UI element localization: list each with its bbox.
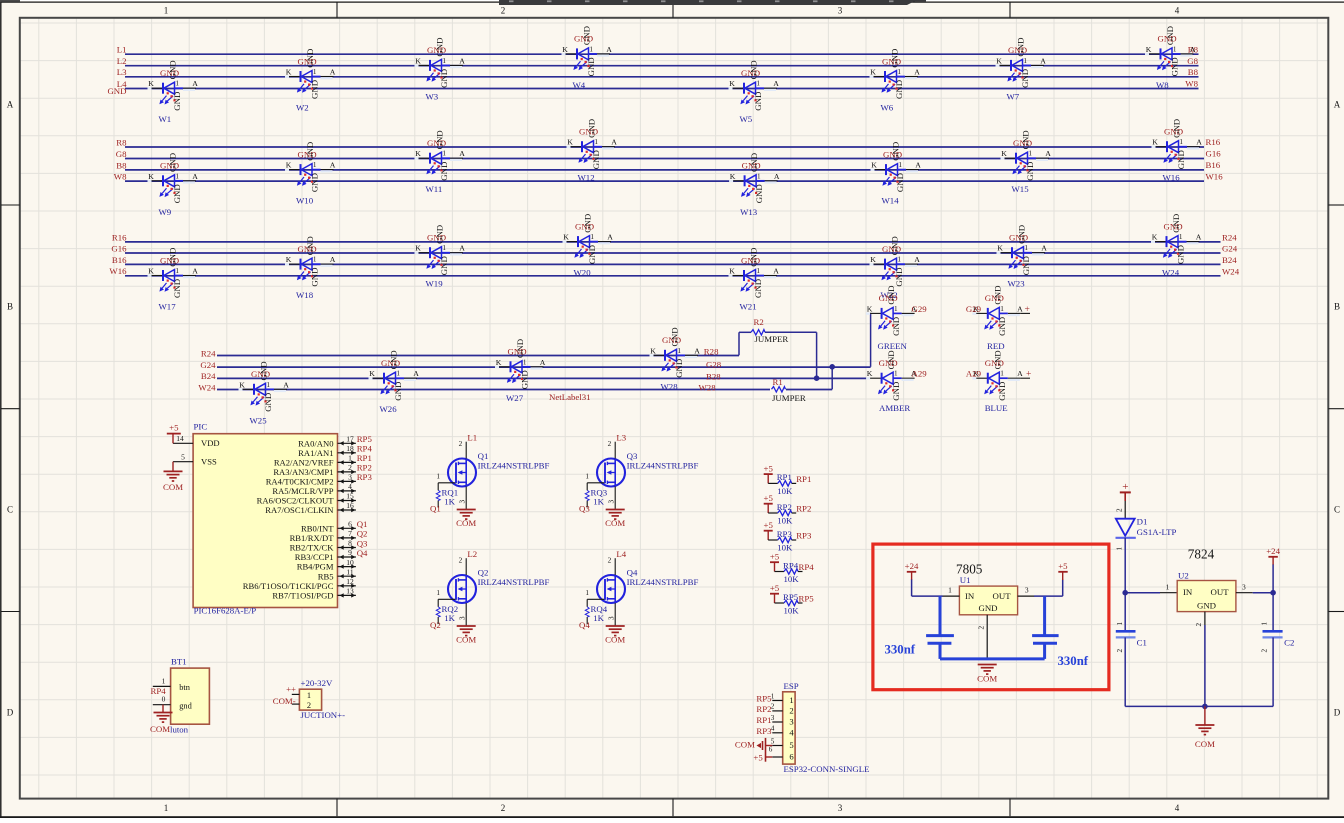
svg-text:14: 14 <box>176 434 184 443</box>
svg-text:G29: G29 <box>912 304 928 314</box>
svg-text:IRLZ44NSTRLPBF: IRLZ44NSTRLPBF <box>478 461 550 471</box>
svg-text:3: 3 <box>789 717 793 727</box>
transistor Q4 IRLZ44NSTRLPBF <box>585 549 698 626</box>
svg-text:W16: W16 <box>109 266 127 276</box>
wire G24 row4 <box>217 366 871 368</box>
power COM at ESP pin5 <box>735 738 772 762</box>
pin RA7/OSC1/CLKIN 16 <box>265 501 356 515</box>
svg-text:12: 12 <box>346 577 354 586</box>
svg-text:Q4: Q4 <box>357 548 368 558</box>
svg-text:COM: COM <box>163 482 183 492</box>
svg-text:A: A <box>1334 100 1341 110</box>
pin RB3/CCP1 9 <box>295 548 356 562</box>
svg-text:GREEN: GREEN <box>878 341 908 351</box>
svg-text:G24: G24 <box>1222 244 1238 254</box>
LED W9 <box>148 153 199 217</box>
svg-text:RB3/CCP1: RB3/CCP1 <box>295 552 334 562</box>
wire G16 row3 <box>125 252 1221 254</box>
svg-text:Q3: Q3 <box>579 504 590 514</box>
svg-text:RP2: RP2 <box>796 504 811 514</box>
wire W28 to G28 vertical <box>831 367 833 390</box>
wire R8 row2 <box>125 146 1204 148</box>
wire R2 horizontal <box>739 331 751 333</box>
svg-text:RP3: RP3 <box>796 531 812 541</box>
svg-text:JUMPER: JUMPER <box>755 334 789 344</box>
svg-text:L1: L1 <box>467 433 477 443</box>
svg-text:5: 5 <box>789 740 793 750</box>
svg-text:1: 1 <box>164 5 169 15</box>
svg-text:Q2: Q2 <box>478 568 489 578</box>
svg-text:luton: luton <box>170 725 189 735</box>
svg-text:R16: R16 <box>112 232 127 242</box>
svg-text:330nf: 330nf <box>1058 654 1089 668</box>
resistor RP5 10K <box>770 583 814 616</box>
wire bottom rail 7824 <box>1125 705 1273 707</box>
wire L3 row1 <box>125 76 1199 78</box>
resistor R2 JUMPER <box>751 330 765 335</box>
svg-text:OUT: OUT <box>1211 587 1230 597</box>
svg-text:6: 6 <box>769 746 773 754</box>
svg-text:C: C <box>7 505 13 515</box>
svg-text:W5: W5 <box>740 114 753 124</box>
svg-text:GND: GND <box>107 86 126 96</box>
svg-text:JUMPER: JUMPER <box>772 393 806 403</box>
svg-text:R24: R24 <box>1222 233 1237 243</box>
resistor RQ1 1K <box>430 488 458 514</box>
svg-text:W3: W3 <box>426 91 439 101</box>
svg-text:ESP: ESP <box>784 681 799 691</box>
svg-text:+5: +5 <box>1058 561 1068 571</box>
svg-text:3: 3 <box>838 5 843 15</box>
svg-text:C: C <box>1334 505 1340 515</box>
LED W11 <box>415 130 466 194</box>
svg-text:L3: L3 <box>117 67 127 77</box>
svg-text:JUCTION+-: JUCTION+- <box>301 710 346 720</box>
resistor R1 JUMPER <box>770 386 786 393</box>
svg-text:B24: B24 <box>1222 255 1237 265</box>
svg-text:W24: W24 <box>198 382 216 392</box>
LED W4 <box>562 26 613 90</box>
LED W6 <box>870 49 921 113</box>
svg-text:W2: W2 <box>296 103 309 113</box>
wire G8 row2 <box>125 158 1204 160</box>
resistor RP1 10K <box>764 463 812 496</box>
svg-text:2: 2 <box>501 803 506 813</box>
svg-text:RP5: RP5 <box>783 592 799 602</box>
wire D1 to junction <box>1124 538 1126 593</box>
LED W24 <box>1151 214 1202 278</box>
svg-text:W13: W13 <box>740 207 758 217</box>
svg-text:+5: +5 <box>764 493 774 503</box>
svg-text:1: 1 <box>164 803 169 813</box>
svg-text:VDD: VDD <box>201 438 220 448</box>
svg-text:U2: U2 <box>1178 570 1189 580</box>
pin RB2/TX/CK 8 <box>290 539 356 553</box>
svg-text:L2: L2 <box>117 56 127 66</box>
svg-text:RB6/T1OSO/T1CKI/PGC: RB6/T1OSO/T1CKI/PGC <box>243 581 334 591</box>
svg-text:5: 5 <box>771 738 775 746</box>
svg-text:IN: IN <box>1183 587 1193 597</box>
wire OUT to +24 <box>1253 592 1273 594</box>
sheet outer border <box>0 1 2 818</box>
wire +24 down right branch <box>1272 565 1274 632</box>
svg-text:RB2/TX/CK: RB2/TX/CK <box>290 543 335 553</box>
svg-text:W28: W28 <box>699 383 717 393</box>
svg-text:COM: COM <box>456 634 476 644</box>
svg-text:IRLZ44NSTRLPBF: IRLZ44NSTRLPBF <box>478 577 550 587</box>
diode D1 GS1A-LTP <box>1116 516 1177 537</box>
ground COM at Q2 <box>457 626 476 636</box>
LED W7 <box>996 38 1047 102</box>
svg-text:+: + <box>1026 369 1031 379</box>
svg-text:RP2: RP2 <box>756 704 771 714</box>
LED W14 <box>871 142 922 206</box>
svg-text:16: 16 <box>346 501 354 510</box>
svg-text:B16: B16 <box>112 255 127 265</box>
svg-text:A29: A29 <box>966 368 982 378</box>
svg-text:10K: 10K <box>777 486 793 496</box>
svg-text:W21: W21 <box>740 302 757 312</box>
wire GREEN feed <box>869 312 871 314</box>
highlight red box <box>873 544 1109 690</box>
svg-text:7824: 7824 <box>1188 547 1215 562</box>
svg-text:10K: 10K <box>784 606 800 616</box>
svg-text:3: 3 <box>1242 582 1246 591</box>
svg-text:1K: 1K <box>444 613 455 623</box>
connector ESP32-CONN-SINGLE <box>769 681 870 774</box>
svg-text:330nf: 330nf <box>885 643 916 657</box>
wire W8 row2 <box>125 180 1204 182</box>
svg-text:B8: B8 <box>1188 67 1199 77</box>
svg-text:GS1A-LTP: GS1A-LTP <box>1137 527 1177 537</box>
svg-text:L3: L3 <box>616 433 626 443</box>
svg-text:L2: L2 <box>467 549 477 559</box>
LED W20 <box>563 214 614 278</box>
LED W27 <box>495 339 546 403</box>
svg-text:4: 4 <box>1175 803 1180 813</box>
svg-text:R16: R16 <box>1206 137 1221 147</box>
svg-text:3: 3 <box>838 803 843 813</box>
svg-text:W8: W8 <box>1185 79 1198 89</box>
svg-text:btn: btn <box>179 683 191 692</box>
svg-text:3: 3 <box>1025 586 1029 595</box>
svg-text:G8: G8 <box>116 149 127 159</box>
svg-text:L4: L4 <box>616 549 626 559</box>
svg-text:A: A <box>7 100 14 110</box>
svg-text:D: D <box>1334 708 1341 718</box>
svg-text:W14: W14 <box>882 196 900 206</box>
svg-text:1: 1 <box>1261 622 1269 626</box>
svg-text:1K: 1K <box>444 497 455 507</box>
svg-text:G8: G8 <box>1187 56 1198 66</box>
svg-text:C1: C1 <box>1137 638 1147 648</box>
svg-text:RA0/AN0: RA0/AN0 <box>298 438 333 448</box>
junction U2 OUT <box>1270 590 1276 596</box>
wire L4 row1 <box>125 88 1199 90</box>
svg-text:2: 2 <box>307 701 311 710</box>
svg-text:18: 18 <box>346 444 354 453</box>
LED W12 <box>567 119 618 183</box>
svg-text:+: + <box>1025 305 1030 315</box>
svg-text:W20: W20 <box>574 268 592 278</box>
svg-text:W18: W18 <box>296 290 314 300</box>
svg-text:10K: 10K <box>784 574 800 584</box>
resistor RP2 10K <box>764 493 812 526</box>
svg-text:RED: RED <box>987 341 1005 351</box>
LED W23 <box>997 225 1048 289</box>
svg-text:RB1/RX/DT: RB1/RX/DT <box>290 533 335 543</box>
svg-text:RB0/INT: RB0/INT <box>301 523 334 533</box>
LED W22 <box>870 236 921 300</box>
wire R2 to B28 vertical <box>816 332 818 378</box>
pin VSS 5 <box>173 461 193 463</box>
svg-text:G28: G28 <box>706 360 722 370</box>
svg-text:ESP32-CONN-SINGLE: ESP32-CONN-SINGLE <box>784 764 870 774</box>
svg-text:R1: R1 <box>773 377 783 387</box>
svg-text:+24: +24 <box>1266 546 1280 556</box>
ground COM at Q4 <box>606 626 625 636</box>
wire +24 to IN <box>911 580 913 597</box>
transistor Q2 IRLZ44NSTRLPBF <box>436 549 549 626</box>
svg-text:11: 11 <box>346 567 353 576</box>
svg-text:+5: +5 <box>770 552 780 562</box>
svg-text:COM: COM <box>605 634 625 644</box>
svg-text:Q2: Q2 <box>357 529 368 539</box>
svg-text:A29: A29 <box>912 368 928 378</box>
svg-text:RP1: RP1 <box>796 474 811 484</box>
wire cap ground rail <box>940 657 1045 660</box>
svg-text:1K: 1K <box>593 497 604 507</box>
svg-text:W9: W9 <box>159 207 172 217</box>
svg-text:B16: B16 <box>1206 160 1221 170</box>
svg-text:Q3: Q3 <box>357 538 368 548</box>
svg-text:RP2: RP2 <box>777 502 792 512</box>
svg-text:2: 2 <box>1116 508 1124 512</box>
svg-text:RP3: RP3 <box>777 529 793 539</box>
net label + after RED <box>1021 312 1030 314</box>
LED W26 <box>369 350 420 414</box>
svg-text:15: 15 <box>346 492 354 501</box>
svg-text:+24: +24 <box>905 561 919 571</box>
LED W8 <box>1145 26 1196 90</box>
wire W16 row3 <box>125 275 1221 277</box>
svg-text:gnd: gnd <box>179 702 192 711</box>
svg-text:W11: W11 <box>426 184 443 194</box>
svg-text:RA5/MCLR/VPP: RA5/MCLR/VPP <box>272 486 333 496</box>
svg-text:G16: G16 <box>1206 149 1222 159</box>
connector BT1 <box>153 657 210 735</box>
svg-text:3: 3 <box>348 473 352 482</box>
svg-text:RB7/T1OSI/PGD: RB7/T1OSI/PGD <box>272 591 333 601</box>
svg-text:+5: +5 <box>770 583 780 593</box>
pin RB1/RX/DT 7 <box>290 529 356 543</box>
svg-text:GND: GND <box>1197 600 1216 610</box>
pin RB4/PGM 10 <box>297 558 356 572</box>
svg-text:W1: W1 <box>159 114 172 124</box>
svg-text:W24: W24 <box>1162 268 1180 278</box>
LED RED <box>972 286 1023 351</box>
pin RA5/MCLR/VPP 4 <box>272 482 356 496</box>
svg-text:GND: GND <box>978 603 997 613</box>
svg-text:OUT: OUT <box>993 591 1012 601</box>
svg-text:RA4/T0CKI/CMP2: RA4/T0CKI/CMP2 <box>266 477 334 487</box>
svg-text:IN: IN <box>965 591 975 601</box>
svg-text:2: 2 <box>1195 623 1203 627</box>
svg-text:RB4/PGM: RB4/PGM <box>297 562 334 572</box>
svg-text:W26: W26 <box>380 404 398 414</box>
svg-text:RP3: RP3 <box>357 472 373 482</box>
capacitor C2 <box>1261 622 1295 707</box>
svg-text:R2: R2 <box>754 317 764 327</box>
svg-text:RP5: RP5 <box>756 694 772 704</box>
junction G28 <box>829 364 835 370</box>
pin RA2/AN2/VREF 1 <box>274 454 356 468</box>
resistor RP4 10K <box>770 552 814 585</box>
svg-text:RP5: RP5 <box>357 434 373 444</box>
regulator U2 7824 <box>1177 547 1253 627</box>
svg-text:1: 1 <box>348 454 352 463</box>
connector JUCTION+- <box>292 678 345 720</box>
capacitor C 330nf right <box>1032 596 1089 668</box>
svg-text:PIC: PIC <box>194 422 208 432</box>
ground COM at BT1 <box>162 705 164 713</box>
svg-text:W25: W25 <box>250 415 268 425</box>
svg-text:8: 8 <box>348 539 352 548</box>
svg-text:4: 4 <box>789 727 794 737</box>
LED W10 <box>285 142 336 206</box>
svg-text:W4: W4 <box>573 80 586 90</box>
svg-text:PIC16F628A-E/P: PIC16F628A-E/P <box>194 606 257 616</box>
LED W16 <box>1152 119 1203 183</box>
svg-text:5: 5 <box>181 453 185 462</box>
junction GND rail <box>1202 704 1208 710</box>
pin RB7/T1OSI/PGD 13 <box>272 587 356 601</box>
ground COM at VSS <box>172 462 174 472</box>
svg-text:Q1: Q1 <box>357 519 368 529</box>
svg-text:G29: G29 <box>966 304 982 314</box>
pin RA4/T0CKI/CMP2 3 <box>266 473 356 487</box>
ground COM at Q1 <box>457 510 476 520</box>
power + at D1 <box>1120 481 1131 501</box>
svg-text:B24: B24 <box>201 371 216 381</box>
top window artifact bar <box>499 0 917 5</box>
svg-text:W12: W12 <box>578 173 595 183</box>
svg-text:4: 4 <box>1175 5 1180 15</box>
LED W25 <box>239 361 290 425</box>
svg-text:+5: +5 <box>753 752 763 762</box>
ground COM at Q3 <box>606 510 625 520</box>
svg-text:1: 1 <box>1166 582 1170 591</box>
svg-text:RA3/AN3/CMP1: RA3/AN3/CMP1 <box>273 467 333 477</box>
svg-text:RP4: RP4 <box>151 686 167 696</box>
junction D1/C1/U2 <box>1122 590 1128 596</box>
svg-text:IRLZ44NSTRLPBF: IRLZ44NSTRLPBF <box>627 461 699 471</box>
IC PIC16F628A-E/P <box>193 434 337 608</box>
svg-text:D1: D1 <box>1137 516 1148 526</box>
wire R24 row4 <box>217 355 739 357</box>
LED W3 <box>415 38 466 102</box>
svg-text:W23: W23 <box>1008 279 1026 289</box>
svg-text:G16: G16 <box>111 243 127 253</box>
svg-text:RB5: RB5 <box>318 571 334 581</box>
wire B16 row3 <box>125 263 1221 265</box>
svg-text:COM: COM <box>150 724 170 734</box>
svg-text:Q1: Q1 <box>478 451 489 461</box>
junction B28 <box>814 375 820 381</box>
svg-text:COM: COM <box>1195 739 1215 749</box>
svg-text:RP4: RP4 <box>799 562 815 572</box>
svg-text:10K: 10K <box>777 516 793 526</box>
svg-text:W16: W16 <box>1206 171 1224 181</box>
svg-text:RA7/OSC1/CLKIN: RA7/OSC1/CLKIN <box>265 505 334 515</box>
wire B24 row4 <box>217 377 869 379</box>
svg-text:2: 2 <box>1116 649 1124 653</box>
svg-text:9: 9 <box>348 548 352 557</box>
wire + to D1 <box>1124 501 1126 519</box>
svg-text:4: 4 <box>348 482 352 491</box>
svg-text:RA2/AN2/VREF: RA2/AN2/VREF <box>274 458 334 468</box>
svg-text:L1: L1 <box>117 45 127 55</box>
svg-text:RP1: RP1 <box>357 453 372 463</box>
svg-text:2: 2 <box>501 5 506 15</box>
svg-text:NetLabel31: NetLabel31 <box>549 392 591 402</box>
resistor RP3 10K <box>764 520 812 553</box>
pin RA0/AN0 17 <box>298 435 356 449</box>
svg-text:R8: R8 <box>116 137 127 147</box>
svg-text:2: 2 <box>978 626 986 630</box>
svg-text:VSS: VSS <box>201 457 217 467</box>
power +24 at U2 <box>1266 546 1280 565</box>
LED W21 <box>729 248 780 312</box>
svg-text:2: 2 <box>789 706 793 716</box>
pin RB6/T1OSO/T1CKI/PGC 12 <box>243 577 356 591</box>
svg-text:10K: 10K <box>777 543 793 553</box>
svg-text:6: 6 <box>348 520 352 529</box>
svg-text:R24: R24 <box>201 348 216 358</box>
svg-text:RP1: RP1 <box>777 472 792 482</box>
pin RB5 11 <box>318 567 356 581</box>
svg-text:W17: W17 <box>159 302 177 312</box>
svg-text:RP2: RP2 <box>357 463 372 473</box>
svg-text:++: ++ <box>286 684 296 694</box>
svg-text:6: 6 <box>789 752 794 762</box>
svg-text:1K: 1K <box>593 613 604 623</box>
svg-text:W19: W19 <box>426 279 444 289</box>
svg-text:13: 13 <box>346 587 354 596</box>
wire B8 row2 <box>125 169 1204 171</box>
svg-text:W7: W7 <box>1007 91 1020 101</box>
svg-text:RP1: RP1 <box>756 715 771 725</box>
power +5 at ESP pin6 <box>753 752 772 762</box>
transistor Q3 IRLZ44NSTRLPBF <box>585 433 698 510</box>
ground COM at U1 <box>978 665 997 675</box>
svg-text:17: 17 <box>346 435 354 444</box>
svg-text:W6: W6 <box>881 103 894 113</box>
power +5 out of U1 <box>1058 561 1068 580</box>
svg-text:C2: C2 <box>1284 638 1294 648</box>
wire L2 row1 <box>125 65 1199 67</box>
svg-text:COM: COM <box>735 739 755 749</box>
svg-text:W8: W8 <box>114 172 127 182</box>
regulator U1 7805 <box>942 561 1034 659</box>
svg-text:B: B <box>7 302 13 312</box>
svg-text:W24: W24 <box>1222 267 1240 277</box>
svg-text:2: 2 <box>348 463 352 472</box>
svg-text:1: 1 <box>789 695 793 705</box>
wire W24 row4 <box>217 389 832 391</box>
capacitor C 330nf left <box>885 596 954 659</box>
power +24 into U1 <box>905 561 919 580</box>
